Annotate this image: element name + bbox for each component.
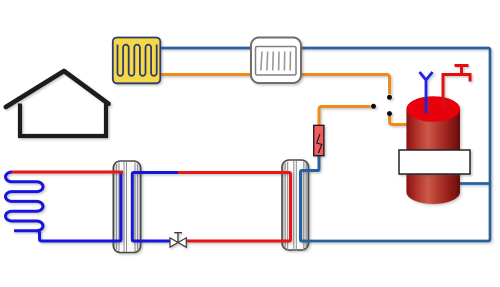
faucet: [443, 66, 470, 106]
valve: [170, 233, 186, 248]
vent Y: [420, 72, 433, 113]
ground loop serpentine: [5, 172, 43, 231]
electric element: [314, 125, 324, 155]
wire orange top: [160, 75, 390, 95]
node plug dot left: [371, 104, 376, 109]
wire orange element branch: [319, 107, 371, 128]
wire blue loop top/right/bottom: [160, 48, 490, 241]
wire HX1 right circuit blue: [132, 173, 178, 242]
collector (yellow box): [113, 38, 161, 84]
node plug dot top: [387, 95, 392, 100]
wire red brine top: [12, 171, 123, 174]
tank (hot water cylinder): [406, 96, 460, 204]
label band: [399, 150, 470, 174]
radiator: [251, 38, 301, 84]
house: [6, 71, 109, 136]
node plug dot bottom: [387, 111, 392, 116]
wire orange to tank: [390, 116, 413, 125]
wire element to HX2 blue: [301, 154, 320, 241]
wire HX1-HX2 red hot: [178, 173, 291, 242]
heat exchanger HX2 body: [282, 160, 309, 251]
wire tank to loop: [450, 182, 490, 185]
heat exchanger HX1 body: [113, 161, 140, 253]
wire ground loop exit to HX1: [37, 172, 122, 241]
